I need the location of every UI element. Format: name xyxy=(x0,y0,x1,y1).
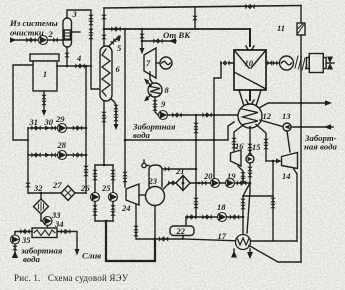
wire seawater row y115 xyxy=(168,114,241,116)
tank 22 xyxy=(170,226,194,236)
pump 33 xyxy=(43,217,52,226)
wire turbine10 left bleed x214 xyxy=(214,63,234,183)
cooling water arrows of 8 xyxy=(147,81,152,86)
pump 35 xyxy=(11,235,20,244)
wire main condensate bold U xyxy=(106,221,155,261)
wire pump13 to ejector 14 xyxy=(287,131,290,152)
heater drain arrow down xyxy=(249,249,251,252)
propulsion motor xyxy=(307,58,310,69)
filter 21 xyxy=(176,176,190,191)
deaerator 23 tank xyxy=(146,187,165,206)
pump 13 xyxy=(283,123,291,131)
heater inlet arrow up xyxy=(233,249,235,251)
pump 25 xyxy=(109,193,118,202)
feed manifold under SG xyxy=(95,164,113,166)
condensate line a to ejector 16 xyxy=(234,125,244,153)
ejector 14 xyxy=(282,153,298,169)
condenser 8 xyxy=(148,83,162,97)
makeup line from purification with pump 2 xyxy=(10,37,17,43)
wire cooler circuit y193 xyxy=(28,192,86,194)
wire 32 to pump 33 xyxy=(41,214,43,221)
ejector 16 xyxy=(231,150,242,166)
wire 35 suction arrow xyxy=(14,244,16,253)
reactor vessel 1 body xyxy=(33,61,57,91)
wire pressurizer top connection xyxy=(67,10,91,66)
pump 15 xyxy=(246,155,254,163)
turbine 10 exhaust to condenser xyxy=(249,90,251,100)
wire 22 drain xyxy=(155,236,183,240)
wire 15/16 drain to heater 17 xyxy=(272,161,274,241)
wire shaft 7 xyxy=(156,62,160,64)
safety valve 5 diagonal xyxy=(108,36,119,47)
wire row183 down to heater xyxy=(243,183,250,235)
wire pressurizer bottom drain xyxy=(66,47,68,66)
deaerator fitting right to x196 xyxy=(162,168,196,170)
wire SG feed line down x104 xyxy=(103,101,105,165)
wire Ot VK line xyxy=(142,40,176,42)
main generator xyxy=(280,56,294,70)
hollow arrow into turbine 10 xyxy=(246,46,254,53)
node y29/x142 xyxy=(141,28,144,31)
wire SG steam riser x104 xyxy=(103,8,105,46)
wire left bracket x28 xyxy=(27,128,29,193)
wire to SG inlet xyxy=(91,66,100,89)
valve on x195 drop xyxy=(192,16,198,21)
steam generator 6 vessel xyxy=(100,46,112,101)
turbine 10 body xyxy=(234,50,266,90)
condenser 12 xyxy=(238,104,262,128)
wire to pump 25 xyxy=(112,165,114,192)
wire 7 to condenser 8 xyxy=(150,72,153,83)
wire SG blowdown with arrow xyxy=(111,99,116,124)
pump 18 xyxy=(218,213,227,222)
loop pump row y155 xyxy=(28,154,86,156)
wire reactor left leg xyxy=(13,65,33,140)
pump 19 xyxy=(226,179,235,188)
wire 8 to pump 9 xyxy=(155,97,158,115)
wire x196 vertical xyxy=(195,115,197,217)
scan noise overlay xyxy=(0,0,1,1)
wire top steam header y7 xyxy=(104,6,301,9)
wire 34 drain to sliv xyxy=(57,232,77,250)
coupling hatch xyxy=(295,56,309,70)
valve pair on y29 header xyxy=(111,26,120,32)
generator of 7 xyxy=(160,57,172,69)
valve on riser upper xyxy=(101,15,107,20)
seawater outlet arrow xyxy=(259,103,325,108)
wire ejector 24 supply x125 xyxy=(124,29,126,187)
wire steam header y29 xyxy=(104,28,250,30)
shaft coupling 10 xyxy=(266,62,279,64)
propeller xyxy=(327,57,333,70)
condensate line c to ejector 14 xyxy=(256,125,266,162)
wire condenser to pump 13 xyxy=(260,120,283,127)
wire to pump 26 xyxy=(94,165,96,192)
wire y140 horizontal xyxy=(125,122,234,140)
pump 29 xyxy=(58,124,67,133)
filter 27 xyxy=(61,186,75,201)
pressure device 11 xyxy=(300,6,302,263)
pump 2 xyxy=(39,36,48,45)
wire heater line row y217 xyxy=(186,216,243,218)
turbine U7 xyxy=(144,48,156,78)
cooler 34 xyxy=(32,228,57,238)
ejector 24 xyxy=(126,184,139,205)
pump 28 xyxy=(58,151,67,160)
deaerator 23 dome xyxy=(149,165,162,187)
wire 24 to deaerator xyxy=(139,194,146,196)
wire heater drain diagonal to x301 xyxy=(249,246,301,263)
filter 32 xyxy=(34,199,49,214)
pump 26 xyxy=(91,193,100,202)
wire deaerator drain xyxy=(154,206,156,240)
SG coil zigzag xyxy=(102,49,110,96)
valve on top header xyxy=(245,4,254,10)
seawater inlet arrow xyxy=(291,126,333,128)
reactor drain valves and arrow xyxy=(43,91,45,110)
loop pump row y128 xyxy=(28,127,86,129)
pressurizer heater element xyxy=(64,30,70,40)
valve on riser lower xyxy=(101,35,107,40)
wire 16 outlet xyxy=(238,166,243,183)
condensate line b through pump 15 xyxy=(249,127,251,156)
node SG riser junction xyxy=(103,28,106,31)
wire 24 drain x136 xyxy=(136,205,155,239)
wire condensate to heater 17 xyxy=(183,239,236,241)
wire to filter 32 xyxy=(40,193,42,199)
pump 9 xyxy=(159,111,168,120)
wire right bracket x86 xyxy=(85,66,87,193)
wire primary hot leg with valve 4 xyxy=(57,65,91,67)
deaerator fitting left xyxy=(143,160,145,163)
heater 17 xyxy=(236,235,251,250)
condensate row y183 from deaerator xyxy=(164,183,251,189)
wire turbine7 feed drop x142 xyxy=(141,29,143,52)
pump 20 xyxy=(211,179,220,188)
wire 14 drain to heater xyxy=(294,169,298,242)
wire turbine10 feed xyxy=(249,29,251,46)
wire 34 left to pump 35 xyxy=(15,232,32,236)
reactor vessel 1 lid xyxy=(30,54,59,61)
pressurizer 3 vessel xyxy=(63,18,72,47)
wire pump outlet manifold xyxy=(95,220,113,222)
wire heater right inlet xyxy=(250,240,297,242)
wire drop x195 xyxy=(194,7,196,29)
